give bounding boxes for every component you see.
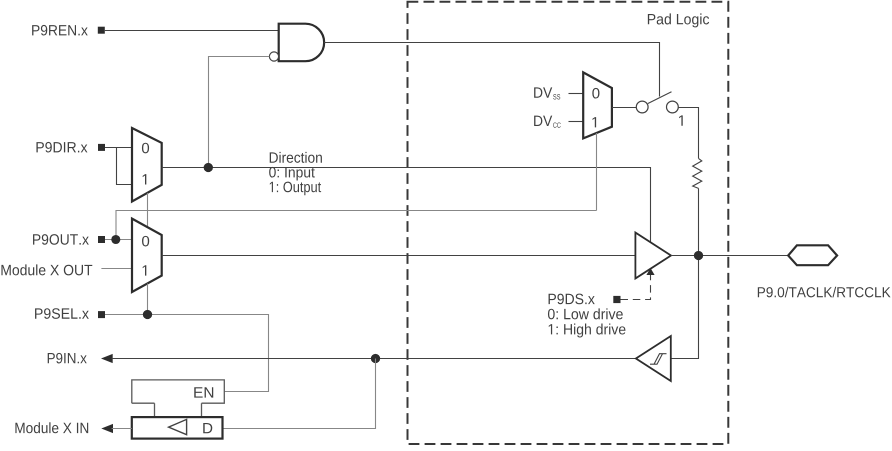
resistor R1: [693, 158, 702, 188]
wire Direction line (mux M1 output to buffer enable): [162, 168, 651, 243]
wire mux M1 select chain (gray): [147, 193, 149, 227]
wire switch to resistor: [678, 108, 698, 159]
switch contact circle left: [636, 101, 648, 113]
input square P9OUT.x: [98, 236, 105, 243]
label DVcc: [534, 116, 552, 126]
wire P9IN.x from schmitt trigger: [112, 358, 636, 360]
and-gate U1: [279, 24, 324, 62]
wire P9SEL.x to latch EN (gray): [105, 315, 269, 392]
label P9IN.x: [48, 353, 87, 364]
wire mux M2 output to output buffer: [162, 255, 636, 257]
label P9REN.x: [32, 25, 88, 36]
wire pull-select line P9OUT to DV mux select (gray): [116, 211, 597, 240]
mux M1 label 1: [143, 174, 147, 184]
wire P9DIR.x to mux M1 inputs: [105, 148, 131, 185]
mux M1 label 0: [142, 143, 149, 154]
label Module X IN: [15, 422, 88, 433]
wire resistor to pad node and schmitt input: [671, 188, 699, 358]
wire P9REN.x to AND gate input: [105, 30, 279, 32]
wire AND gate output to switch control: [324, 43, 659, 97]
input square P9SEL.x: [98, 311, 105, 318]
Pad Logic dashed box: [408, 2, 729, 444]
junction dot P9OUT node: [111, 235, 120, 244]
wire latch to Module X IN (gray): [112, 428, 132, 430]
junction dot direction node: [204, 163, 213, 172]
wire mux M2 select to P9SEL node (gray): [147, 284, 149, 315]
schmitt hysteresis symbol: [650, 354, 667, 365]
label 0: Input: [269, 167, 315, 181]
input square P9REN.x: [98, 27, 105, 34]
label Module X OUT: [1, 264, 92, 275]
output buffer U2: [635, 233, 671, 279]
switch contact circle right: [667, 101, 679, 113]
mux M1 (direction select): [132, 128, 162, 202]
junction dot P9IN node: [371, 354, 380, 363]
label Pad Logic: [648, 13, 709, 27]
wire mux M3 output to switch: [612, 107, 636, 109]
mux M2 (output select): [132, 219, 162, 292]
junction dot P9SEL node: [143, 310, 152, 319]
latch clock triangle: [169, 419, 187, 434]
label DVss: [534, 87, 552, 97]
mux M2 label 0: [142, 236, 149, 247]
mux M3 label 1: [592, 117, 596, 127]
arrowhead P9IN.x: [101, 354, 113, 363]
wire P9IN node to latch D input (gray): [223, 359, 376, 429]
label 0: Low drive: [548, 308, 623, 319]
label P9.0/TACLK/RTCCLK: [758, 287, 891, 298]
wire DVcc stub: [569, 121, 584, 123]
label EN: [194, 387, 213, 397]
mux M3 label 0: [592, 88, 599, 99]
wire Module X OUT to mux M2 input 1: [101, 268, 132, 270]
mux M2 label 1: [143, 265, 147, 275]
switch blade: [648, 92, 672, 104]
input square P9DS.x: [613, 296, 620, 303]
latch D box: [132, 417, 223, 439]
wire DVss stub: [569, 93, 584, 95]
wire AND bubble to direction node (gray control): [209, 57, 270, 168]
label P9DIR.x: [36, 142, 87, 153]
wire mux M3 select (gray): [596, 133, 598, 211]
label P9SEL.x: [35, 308, 89, 319]
schmitt trigger U3: [636, 336, 671, 381]
label Direction: [270, 152, 322, 163]
latch EN box: [132, 380, 225, 417]
arrowhead Module X IN: [101, 424, 113, 433]
input square P9DIR.x: [98, 144, 105, 151]
dashed wire P9DS.x to buffer: [621, 275, 651, 300]
label P9OUT.x: [33, 234, 89, 245]
arrowhead P9DS drive control: [646, 268, 654, 275]
label 1 (switch): [679, 115, 683, 125]
inverter bubble on AND gate input: [269, 52, 278, 61]
pad hexagon P9.0: [788, 245, 837, 265]
junction dot pad node: [694, 251, 703, 260]
wire buffer output to pad: [671, 255, 788, 257]
label 1: Output: [270, 182, 321, 196]
label 1: High drive: [549, 324, 626, 338]
label D: [203, 423, 212, 433]
wire P9OUT.x to mux M2 input 0: [105, 239, 132, 241]
label P9DS.x: [549, 294, 595, 305]
mux M3 (pull-up/pull-down select): [583, 72, 612, 138]
